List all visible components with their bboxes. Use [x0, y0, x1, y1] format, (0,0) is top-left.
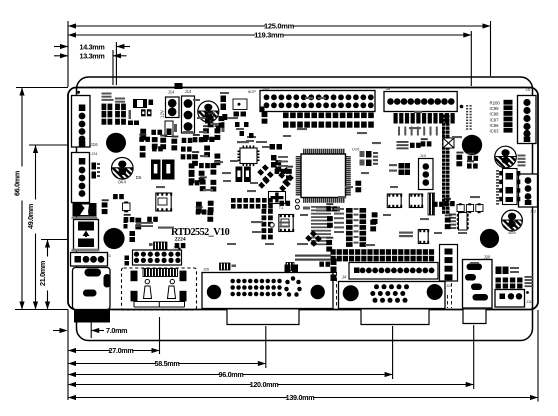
cluster near 2224 — [175, 243, 180, 248]
IC U11 SOIC8 — [279, 215, 293, 232]
via — [460, 105, 464, 109]
capacitors above chip C47 — [256, 141, 267, 143]
svg-text:J12: J12 — [530, 210, 536, 214]
IC U16 SOIC8 — [409, 194, 422, 208]
dimension 58.5mm — [265, 326, 267, 368]
svg-text:58.5mm: 58.5mm — [155, 359, 180, 368]
connector J7 — [133, 250, 182, 265]
sparse cluster below J13 mid — [235, 122, 240, 127]
power FETs U2 — [151, 160, 161, 180]
silk text below U10 — [303, 207, 310, 210]
capacitor C30 — [165, 121, 173, 137]
svg-text:119.3mm: 119.3mm — [254, 31, 284, 40]
cluster right of QFP16 — [275, 160, 281, 165]
svg-text:7.0mm: 7.0mm — [106, 326, 127, 335]
cluster right of J13 below — [262, 112, 268, 117]
dimension 49.0mm — [29, 144, 68, 146]
svg-text:R200: R200 — [490, 101, 501, 106]
edge component top — [175, 83, 183, 89]
svg-text:12V: 12V — [160, 109, 165, 118]
svg-text:0K4: 0K4 — [118, 180, 126, 185]
cluster center labels — [311, 206, 331, 208]
cluster T3 — [279, 201, 284, 206]
DVI connector J5 — [202, 273, 333, 309]
svg-text:2B: 2B — [525, 87, 530, 92]
cluster center-left — [196, 202, 202, 207]
svg-text:D5: D5 — [136, 175, 142, 180]
vertical striped bar — [428, 193, 435, 215]
svg-text:U10: U10 — [352, 147, 360, 152]
HDMI connector — [143, 269, 178, 277]
diode D9 melf — [134, 100, 147, 108]
svg-text:J6: J6 — [386, 86, 391, 91]
svg-text:125.0mm: 125.0mm — [264, 22, 295, 31]
IC U18 QFN — [418, 230, 428, 244]
trimmer VR1 — [269, 192, 286, 204]
capacitor pair C13 — [124, 219, 128, 224]
bottom extension line left — [67, 310, 69, 401]
silk label JCM178 — [158, 227, 174, 229]
IC U15 SOIC8 — [387, 194, 401, 208]
connector J19 — [440, 245, 458, 282]
resistor row below J6 — [394, 113, 398, 124]
svg-text:J16: J16 — [90, 142, 98, 147]
svg-text:J13: J13 — [263, 86, 270, 91]
svg-text:J11: J11 — [526, 300, 532, 304]
resistors R82 R80 — [92, 163, 97, 170]
headphone jack J2 — [73, 268, 111, 310]
resistor array below J13 — [283, 113, 289, 119]
svg-text:J14: J14 — [168, 90, 175, 95]
J13 pin1 pad — [260, 107, 265, 112]
silk labels center — [237, 141, 249, 143]
capacitors C89 C87 — [389, 164, 397, 166]
svg-text:J31: J31 — [91, 151, 98, 156]
dashed outline between DVI and VGA — [332, 272, 334, 307]
svg-text:66.0mm: 66.0mm — [13, 171, 22, 196]
dimension 120.0mm — [473, 325, 475, 389]
pad grid 2x4 — [496, 278, 501, 283]
regulator U13 DCDC — [496, 170, 499, 172]
rotated smd pair group — [257, 164, 269, 176]
capacitor pair right of coil — [221, 96, 227, 103]
pad column 2x4 — [262, 209, 267, 214]
connector J1 — [71, 253, 108, 267]
extra silk marks — [305, 97, 313, 99]
transistors U9 below QFP16 — [236, 167, 243, 183]
PCB board outline — [68, 88, 538, 310]
vertical pad strip — [442, 115, 446, 118]
connector J16 — [77, 91, 80, 94]
via T1 ring — [270, 223, 274, 227]
dimension 139.0mm — [537, 310, 539, 402]
DC jack bump — [463, 310, 486, 324]
IC U9 QFP16 — [240, 148, 257, 164]
capacitors C84 C80 — [496, 267, 502, 275]
dimension 7.0mm — [53, 330, 61, 332]
svg-text:13.3mm: 13.3mm — [80, 52, 105, 61]
svg-text:IC99: IC99 — [490, 106, 500, 111]
cluster below inductor — [113, 194, 118, 199]
connector J15 — [72, 153, 90, 203]
svg-text:14.3mm: 14.3mm — [80, 42, 105, 51]
svg-text:J19: J19 — [446, 284, 452, 288]
silk m/a text row — [295, 255, 331, 257]
vias below U10 — [296, 199, 300, 203]
dimension 96.0mm — [392, 326, 394, 379]
dimension 14.3mm — [115, 42, 117, 85]
labels GP98 — [334, 208, 344, 210]
smd bar center — [231, 198, 236, 203]
pads pair — [130, 231, 136, 236]
svg-text:49.0mm: 49.0mm — [26, 204, 35, 229]
fuse holder J3 — [74, 220, 99, 250]
dimension 66.0mm — [16, 87, 68, 89]
svg-text:2224: 2224 — [175, 237, 186, 243]
DVI connector bump — [227, 310, 299, 325]
pads right of melf — [141, 109, 146, 116]
cluster top-center — [203, 128, 209, 133]
svg-text:J20: J20 — [484, 255, 491, 260]
svg-text:T1: T1 — [279, 206, 283, 210]
SOT23 row — [457, 205, 464, 212]
capacitors C49 group — [271, 155, 277, 161]
dimension 21.0mm — [41, 239, 68, 241]
mounting hole bottom-right — [480, 229, 499, 248]
IC U12 SOIC8 — [156, 193, 171, 211]
cluster right mid — [433, 202, 438, 207]
svg-text:120.0mm: 120.0mm — [250, 380, 279, 389]
dimension 119.3mm — [470, 31, 472, 86]
mounting hole top-left — [106, 133, 126, 153]
mounting hole bottom-left — [103, 228, 124, 249]
svg-text:IC98: IC98 — [490, 112, 500, 117]
dashed outline right of VGA — [447, 295, 449, 308]
switch SW1 — [73, 203, 97, 217]
cluster left of J7 — [124, 217, 129, 222]
long pin strip above J4 — [331, 249, 336, 255]
header strip vertical — [346, 208, 353, 213]
svg-text:139.0mm: 139.0mm — [286, 393, 315, 402]
sparse cluster below J13 left — [208, 116, 214, 121]
svg-text:8D6: 8D6 — [508, 230, 516, 235]
svg-text:27.0mm: 27.0mm — [109, 346, 134, 355]
labels C108 — [518, 155, 526, 157]
capacitor above DVI right — [286, 263, 294, 271]
scattered silkscreen labels — [183, 131, 193, 133]
cluster top-left R131 area — [102, 93, 112, 95]
panel outline — [77, 77, 533, 341]
HDMI shield box — [122, 268, 197, 310]
ferrite J18 — [154, 242, 168, 250]
dimension 27.0mm — [159, 317, 161, 354]
resistor R107 — [222, 114, 227, 120]
cluster col right-center — [372, 212, 378, 217]
silk SumGOW — [399, 232, 413, 234]
vertical silk text — [466, 105, 468, 107]
VGA connector bump — [361, 310, 429, 325]
cluster Q5 — [456, 155, 462, 160]
svg-text:J26: J26 — [203, 268, 209, 272]
svg-text:8CP: 8CP — [248, 89, 256, 94]
svg-text:J4: J4 — [342, 275, 347, 280]
cluster top-right mids — [410, 143, 415, 148]
svg-text:J14: J14 — [185, 89, 192, 94]
mounting hole top-right — [462, 135, 482, 155]
IC U10 RTD2552 main chip — [301, 154, 346, 198]
ferrite above DVI — [220, 263, 231, 270]
cluster mid-left — [140, 129, 146, 134]
connector J11 — [495, 290, 525, 308]
audio jack protrusion — [74, 310, 110, 323]
dimension 125.0mm — [67, 21, 69, 87]
connector J12 — [519, 174, 538, 207]
edge pads right of DVI — [331, 259, 337, 266]
dimension 13.3mm — [112, 50, 114, 85]
svg-text:96.0mm: 96.0mm — [219, 370, 244, 379]
labels below resistor row — [398, 127, 400, 136]
pads with cross — [443, 138, 454, 148]
svg-text:IC96: IC96 — [490, 123, 500, 128]
cluster right of U10 — [360, 151, 365, 157]
cluster above DVI — [285, 265, 291, 273]
svg-text:J10: J10 — [420, 153, 427, 158]
IC U14 — [233, 99, 247, 110]
cluster mid-left lower — [189, 163, 195, 168]
svg-text:IC97: IC97 — [490, 117, 500, 122]
VGA connector J9 — [339, 282, 446, 309]
svg-text:IC63: IC63 — [490, 129, 500, 134]
IC U13 SOP — [459, 213, 468, 231]
svg-text:21.0mm: 21.0mm — [38, 261, 47, 286]
cluster small C56 — [355, 181, 361, 186]
